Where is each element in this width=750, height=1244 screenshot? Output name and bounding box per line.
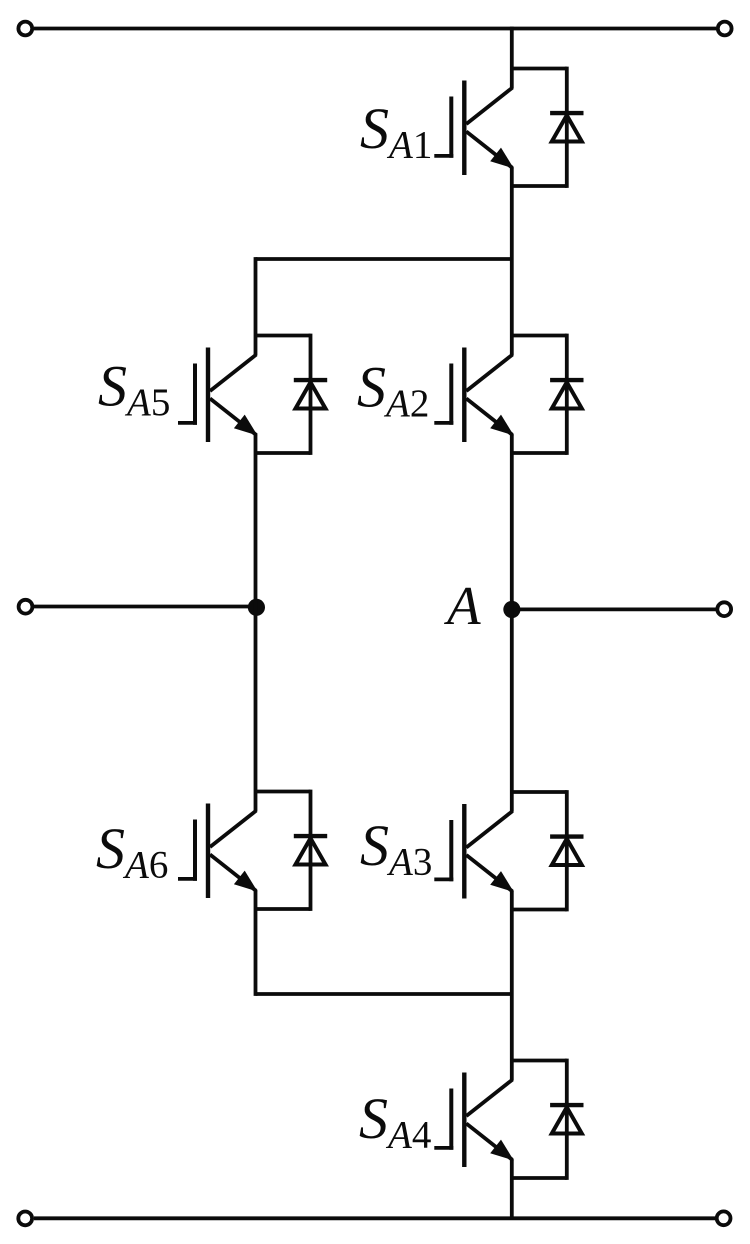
junction dot node A xyxy=(503,601,520,618)
diode of SA4 xyxy=(511,1059,584,1180)
wire: left vertical branch to SA5 xyxy=(254,257,258,355)
wire: left vertical SA5 emitter to SA6 xyxy=(254,433,258,811)
wire: main vertical SA4 emitter to bottom rail xyxy=(510,1159,514,1219)
terminal top-right xyxy=(718,22,732,36)
terminal bottom-left xyxy=(18,1212,32,1226)
diode of SA2 xyxy=(511,334,584,455)
IGBT SA3 xyxy=(434,804,514,899)
wire: main vertical top rail to SA1 xyxy=(510,27,514,89)
top rail wire xyxy=(34,27,716,31)
wire: main vertical SA1 emitter to SA2 xyxy=(510,167,514,355)
IGBT SA6 xyxy=(178,804,258,899)
diode of SA6 xyxy=(255,790,328,911)
diode of SA5 xyxy=(255,334,328,455)
wire: upper branch horizontal to left leg xyxy=(256,257,512,261)
IGBT SA1 xyxy=(434,81,514,176)
IGBT SA4 xyxy=(434,1073,514,1168)
diode of SA1 xyxy=(511,67,584,188)
terminal middle-left xyxy=(19,600,33,614)
terminal top-left xyxy=(18,22,32,36)
IGBT SA5 xyxy=(178,348,258,443)
terminal bottom-right xyxy=(717,1211,731,1225)
svg-text:A: A xyxy=(443,575,481,636)
middle left output wire xyxy=(34,605,257,609)
wire: left vertical SA6 emitter to bottom join xyxy=(254,890,258,996)
wire: main vertical SA3 emitter to SA4 xyxy=(510,890,514,1080)
junction dot left node xyxy=(248,599,265,616)
wire: lower branch horizontal join xyxy=(256,992,512,996)
middle right output wire (node A) xyxy=(512,608,716,612)
diode of SA3 xyxy=(511,790,584,911)
IGBT SA2 xyxy=(434,348,514,443)
bottom rail wire xyxy=(34,1216,716,1220)
terminal middle-right xyxy=(717,602,731,616)
wire: main vertical SA2 emitter through node A to SA3 xyxy=(510,434,514,812)
